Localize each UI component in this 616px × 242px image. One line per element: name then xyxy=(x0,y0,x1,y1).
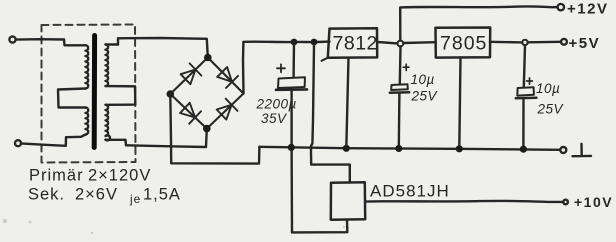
transformer T1 dashed enclosure xyxy=(42,25,136,163)
wire C2 to ground rail xyxy=(398,93,401,148)
label C1 value 2200u xyxy=(256,97,297,112)
capacitor C2 positive plate xyxy=(391,84,408,90)
junction bridge AC2 (bottom) xyxy=(203,125,211,133)
wire U3 ground loop xyxy=(292,220,347,233)
label U1 7812 xyxy=(333,33,378,55)
capacitor C3 negative plate xyxy=(516,97,537,100)
wire to +5V terminal xyxy=(528,41,561,44)
transformer core xyxy=(92,36,97,148)
label C3 voltage 25V xyxy=(537,102,565,117)
wire +12V riser xyxy=(400,6,557,40)
label transformer secondary rating xyxy=(28,186,181,207)
capacitor C1 negative plate xyxy=(276,88,307,91)
junction bridge AC1 (top) xyxy=(204,54,212,62)
diode D1 (top-left arm) xyxy=(181,63,202,84)
bridge arm bottom-right xyxy=(207,94,244,129)
wire U3 output to +10V xyxy=(365,201,562,202)
transformer secondary winding (right) xyxy=(106,45,136,146)
wire primary bottom lead xyxy=(21,143,66,145)
ground symbol xyxy=(573,144,592,156)
capacitor C2 plus sign xyxy=(403,64,409,70)
svg-text:7805: 7805 xyxy=(440,33,487,55)
label transformer primary rating xyxy=(29,167,151,185)
node +12V junction ring xyxy=(398,41,404,47)
label C2 voltage 25V xyxy=(411,89,439,104)
label +5V xyxy=(569,35,601,52)
junction C1 / AD581 ground on rail xyxy=(288,144,295,151)
node +12V output terminal xyxy=(558,4,564,10)
wire U1 to U2 xyxy=(403,41,435,44)
label C2 value 10u xyxy=(411,72,435,87)
capacitor C3 positive plate xyxy=(517,87,534,95)
wire U1 output xyxy=(377,42,397,43)
node +5V junction ring xyxy=(522,40,527,45)
capacitor C2 negative plate xyxy=(390,91,409,94)
svg-text:+10V: +10V xyxy=(574,194,613,210)
capacitor C1 positive plate xyxy=(278,77,305,88)
wire C3 top lead xyxy=(524,45,525,87)
wire U1 ground pin xyxy=(346,58,348,149)
capacitor C3 plus sign xyxy=(527,78,533,84)
diode D3 (bottom-left arm) xyxy=(180,103,201,124)
svg-text:2×6V: 2×6V xyxy=(75,186,118,204)
svg-text:25V: 25V xyxy=(537,102,565,117)
label U3 AD581JH xyxy=(370,182,450,201)
label C1 voltage 35V xyxy=(261,111,288,126)
bridge arm top-left xyxy=(170,58,208,95)
junction C2 ground xyxy=(395,145,402,152)
svg-text:35V: 35V xyxy=(261,111,288,126)
node +5V output terminal xyxy=(561,39,567,45)
label U2 7805 xyxy=(440,33,487,55)
svg-text:7812: 7812 xyxy=(333,33,378,55)
voltage reference U3 AD581 xyxy=(331,182,365,219)
transformer primary winding (left) xyxy=(58,40,88,146)
svg-text:25V: 25V xyxy=(411,89,439,104)
svg-text:je: je xyxy=(129,192,141,206)
svg-text:10µ: 10µ xyxy=(536,81,560,96)
wire bridge plus to unregulated rail xyxy=(243,42,330,94)
label C3 value 10u xyxy=(536,81,560,96)
junction bridge minus (left) xyxy=(167,90,175,98)
label +12V xyxy=(567,0,608,17)
wire U2 ground pin xyxy=(459,58,460,149)
svg-text:+5V: +5V xyxy=(569,35,601,52)
label +10V xyxy=(574,194,613,210)
wire U2 output xyxy=(490,41,522,44)
svg-text:AD581JH: AD581JH xyxy=(370,182,450,201)
junction unregulated rail / AD581 feed xyxy=(311,39,318,46)
junction C3 ground xyxy=(520,146,527,153)
wire bridge minus to ground rail (dip under AC wire) xyxy=(170,94,259,164)
regulator U2 7805 xyxy=(436,28,491,58)
regulator U1 7812 xyxy=(322,28,378,61)
capacitor C1 2200u top lead xyxy=(292,42,295,77)
wire C3 to ground rail xyxy=(522,99,524,149)
node B: primary bottom terminal xyxy=(15,140,21,146)
wire ground rail xyxy=(259,147,560,150)
bridge arm top-right xyxy=(208,58,244,94)
wire secondary bottom tap to bridge AC2 xyxy=(126,129,207,147)
svg-text:+12V: +12V xyxy=(567,0,608,17)
svg-text:Primär: Primär xyxy=(29,167,84,185)
paper speckle marks xyxy=(3,219,345,234)
svg-text:10µ: 10µ xyxy=(411,72,435,87)
wire AD581 input feed xyxy=(311,45,350,183)
wire C2 top lead xyxy=(399,46,402,83)
diode D4 (bottom-right arm) xyxy=(217,99,238,120)
bridge arm bottom-left xyxy=(170,94,207,129)
junction U2 ground xyxy=(456,145,463,152)
junction unregulated rail / C1 xyxy=(291,39,298,46)
diode D2 (top-right arm) xyxy=(217,67,238,88)
node +10V output terminal xyxy=(563,200,568,205)
svg-text:2×120V: 2×120V xyxy=(88,167,151,185)
svg-text:Sek.: Sek. xyxy=(28,186,65,204)
svg-text:2200µ: 2200µ xyxy=(256,97,297,112)
junction U1 ground xyxy=(343,145,350,152)
svg-text:1,5A: 1,5A xyxy=(143,186,181,204)
wire secondary top tap to bridge AC1 xyxy=(118,38,208,58)
capacitor C1 plus sign xyxy=(277,64,285,72)
wire primary top lead xyxy=(16,38,64,41)
node A: primary top terminal xyxy=(9,36,15,42)
node ground output terminal xyxy=(560,147,566,153)
wire C1 to ground rail and AD581 ground loop xyxy=(290,91,293,233)
